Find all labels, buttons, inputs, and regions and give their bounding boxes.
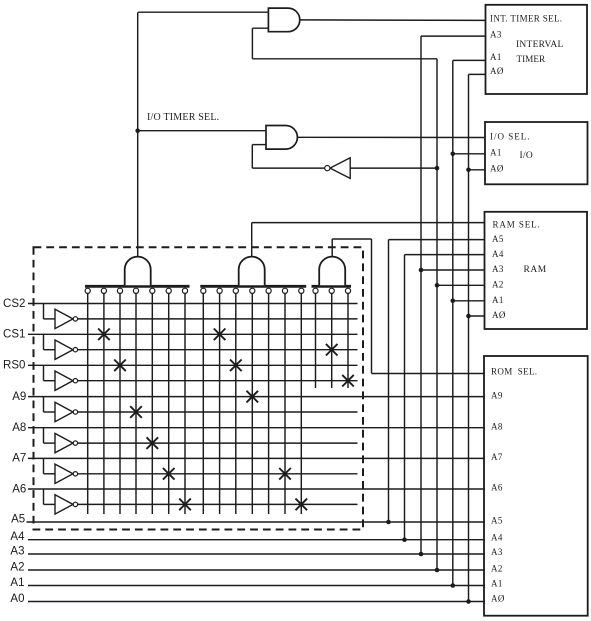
svg-text:A6: A6 [491, 483, 503, 493]
svg-text:A1: A1 [10, 577, 24, 589]
svg-text:A4: A4 [492, 249, 504, 259]
svg-text:A2: A2 [492, 280, 504, 290]
svg-text:A3: A3 [492, 264, 504, 274]
svg-text:RAM SEL.: RAM SEL. [493, 220, 541, 230]
svg-text:I/O: I/O [520, 151, 534, 161]
svg-text:AØ: AØ [492, 310, 506, 320]
svg-text:A3: A3 [490, 30, 502, 40]
svg-text:AØ: AØ [490, 66, 504, 76]
svg-text:A8: A8 [491, 421, 503, 431]
svg-text:A8: A8 [12, 422, 26, 434]
svg-text:AØ: AØ [491, 593, 505, 603]
svg-text:INTERVAL: INTERVAL [516, 40, 564, 50]
svg-text:ROM SEL.: ROM SEL. [491, 367, 537, 377]
svg-text:A7: A7 [12, 453, 26, 465]
svg-text:RAM: RAM [524, 265, 547, 275]
svg-text:A3: A3 [10, 546, 24, 558]
svg-text:A1: A1 [490, 52, 502, 62]
svg-text:I/O TIMER SEL.: I/O TIMER SEL. [147, 112, 219, 123]
svg-text:A9: A9 [491, 390, 503, 400]
svg-text:I/O SEL.: I/O SEL. [490, 131, 531, 141]
svg-text:CS2: CS2 [3, 298, 25, 310]
svg-text:A5: A5 [491, 516, 503, 526]
svg-text:A0: A0 [10, 593, 24, 605]
svg-text:A7: A7 [491, 452, 503, 462]
svg-text:A9: A9 [12, 391, 26, 403]
svg-text:A6: A6 [12, 483, 26, 495]
svg-text:A2: A2 [491, 563, 503, 573]
svg-text:A1: A1 [492, 295, 504, 305]
svg-text:A1: A1 [490, 147, 502, 157]
svg-text:A2: A2 [10, 562, 24, 574]
svg-text:A4: A4 [10, 531, 25, 543]
svg-text:CS1: CS1 [3, 329, 25, 341]
svg-text:A3: A3 [491, 547, 503, 557]
svg-text:A5: A5 [11, 514, 25, 526]
svg-text:A4: A4 [491, 533, 503, 543]
svg-text:A1: A1 [491, 578, 503, 588]
svg-text:AØ: AØ [490, 163, 504, 173]
svg-text:A5: A5 [492, 234, 504, 244]
svg-text:RS0: RS0 [3, 360, 25, 372]
svg-text:INT. TIMER SEL.: INT. TIMER SEL. [490, 14, 562, 24]
svg-text:TIMER: TIMER [517, 54, 546, 64]
